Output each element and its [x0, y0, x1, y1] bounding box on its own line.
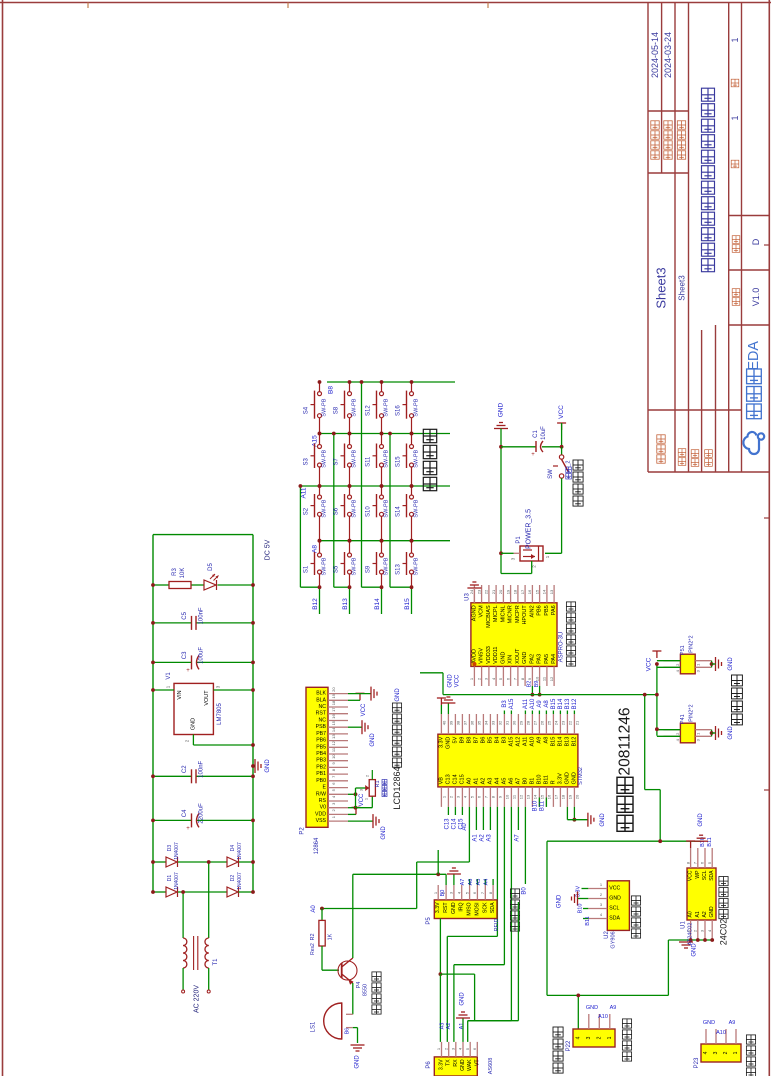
svg-text:B11: B11	[707, 837, 713, 846]
svg-text:PB5: PB5	[544, 605, 550, 615]
svg-text:24: 24	[554, 720, 559, 725]
svg-text:1N4007: 1N4007	[237, 842, 243, 860]
svg-text:AIN2: AIN2	[529, 605, 535, 617]
svg-text:VCC: VCC	[361, 703, 367, 716]
svg-text:16: 16	[527, 589, 532, 594]
svg-text:SW-PB: SW-PB	[384, 398, 390, 416]
svg-text:PA5: PA5	[544, 654, 550, 664]
svg-text:A5: A5	[476, 879, 482, 886]
svg-text:XOUT: XOUT	[515, 648, 521, 664]
svg-text:SW-PB: SW-PB	[414, 557, 420, 575]
svg-text:R2: R2	[310, 933, 316, 940]
svg-text:15: 15	[534, 589, 539, 594]
svg-text:A1: A1	[473, 778, 479, 785]
svg-text:22: 22	[568, 720, 573, 725]
svg-text:A3: A3	[486, 834, 492, 842]
svg-text:A0: A0	[466, 778, 472, 785]
svg-text:10uF: 10uF	[541, 426, 547, 440]
svg-text:RX: RX	[453, 1059, 459, 1067]
svg-text:1: 1	[733, 1051, 739, 1054]
svg-text:A9: A9	[610, 1005, 617, 1011]
svg-text:GND: GND	[370, 733, 376, 747]
svg-text:15: 15	[540, 794, 545, 799]
svg-text:P41: P41	[680, 714, 686, 724]
svg-text:A6: A6	[508, 778, 514, 785]
svg-text:14: 14	[542, 589, 547, 594]
svg-text:SW-PB: SW-PB	[322, 557, 328, 575]
svg-text:B14: B14	[557, 737, 563, 747]
svg-text:18: 18	[561, 794, 566, 799]
svg-text:S2: S2	[304, 507, 310, 515]
svg-text:VCC: VCC	[609, 886, 620, 892]
svg-text:AVDD: AVDD	[471, 649, 477, 664]
svg-text:23: 23	[561, 720, 566, 725]
svg-text:TX: TX	[446, 1059, 452, 1066]
svg-text:12: 12	[549, 676, 554, 681]
svg-text:SW-PB: SW-PB	[322, 398, 328, 416]
svg-text:WAK: WAK	[467, 1059, 473, 1071]
svg-text:+: +	[531, 452, 535, 458]
svg-text:17: 17	[554, 794, 559, 799]
svg-text:GND: GND	[703, 1020, 715, 1026]
svg-text:B8: B8	[466, 737, 472, 744]
svg-text:VIN5V: VIN5V	[479, 648, 485, 664]
svg-text:PB6: PB6	[316, 738, 326, 744]
svg-text:BLA: BLA	[316, 697, 326, 703]
svg-text:P22: P22	[566, 1040, 572, 1051]
svg-text:PIN2*2: PIN2*2	[688, 635, 694, 652]
svg-text:31: 31	[505, 720, 510, 725]
svg-text:A15: A15	[509, 698, 515, 709]
svg-text:A11: A11	[522, 737, 528, 746]
svg-text:AS608: AS608	[488, 1058, 494, 1075]
svg-text:B12: B12	[572, 698, 578, 709]
svg-text:100nF: 100nF	[199, 607, 205, 624]
svg-text:A0: A0	[688, 911, 694, 917]
svg-text:35: 35	[477, 720, 482, 725]
svg-text:GND: GND	[728, 657, 734, 671]
svg-text:A8: A8	[312, 545, 319, 553]
svg-text:B2: B2	[527, 681, 533, 688]
svg-text:B3: B3	[502, 700, 508, 708]
svg-text:4: 4	[703, 1051, 709, 1054]
svg-text:C15: C15	[459, 774, 465, 784]
svg-text:D5: D5	[208, 563, 214, 571]
svg-text:A8: A8	[544, 700, 550, 708]
svg-text:22: 22	[484, 589, 489, 594]
svg-text:32: 32	[498, 720, 503, 725]
svg-text:PA6: PA6	[551, 605, 557, 615]
svg-text:ASPRO-3U: ASPRO-3U	[559, 632, 565, 663]
svg-text:S5: S5	[334, 565, 340, 573]
svg-text:A10: A10	[529, 737, 535, 747]
svg-text:1: 1	[607, 1036, 613, 1039]
svg-text:40: 40	[442, 720, 447, 725]
svg-text:A1: A1	[472, 834, 478, 842]
svg-text:B3: B3	[501, 737, 507, 744]
svg-text:STM32: STM32	[578, 767, 584, 785]
svg-text:B12: B12	[571, 737, 577, 747]
svg-text:VSS: VSS	[316, 818, 327, 824]
svg-text:20: 20	[331, 687, 336, 692]
svg-text:SCL: SCL	[609, 906, 619, 912]
svg-text:SW-PB: SW-PB	[352, 398, 358, 416]
svg-text:A7: A7	[514, 834, 520, 842]
svg-text:B7: B7	[473, 737, 479, 744]
svg-text:A2: A2	[480, 778, 486, 785]
svg-text:POWER_3.5: POWER_3.5	[526, 509, 533, 549]
svg-text:SW-PB: SW-PB	[352, 557, 358, 575]
svg-text:1N4007: 1N4007	[174, 872, 180, 890]
svg-text:GND: GND	[709, 906, 715, 918]
svg-text:PA3: PA3	[537, 654, 543, 664]
svg-text:P4: P4	[356, 982, 362, 989]
svg-text:12: 12	[519, 794, 524, 799]
svg-text:LS1: LS1	[311, 1021, 317, 1032]
svg-text:MICPL: MICPL	[493, 605, 499, 622]
svg-text:3.3V: 3.3V	[575, 886, 581, 898]
svg-text:B11: B11	[539, 800, 545, 811]
svg-text:WP: WP	[695, 870, 701, 879]
svg-text:AT24C02: AT24C02	[688, 923, 694, 946]
svg-text:GND: GND	[556, 894, 562, 908]
svg-text:GND: GND	[571, 772, 577, 784]
svg-text:B9: B9	[459, 737, 465, 744]
svg-text:4: 4	[575, 1036, 581, 1039]
svg-text:13: 13	[526, 794, 531, 799]
svg-text:S8: S8	[334, 406, 340, 414]
svg-text:P5: P5	[426, 917, 432, 925]
svg-text:GND: GND	[564, 772, 570, 784]
svg-text:A4: A4	[494, 778, 500, 785]
svg-text:A10: A10	[530, 698, 536, 709]
svg-text:20811246: 20811246	[617, 707, 634, 775]
svg-text:GY906: GY906	[611, 931, 617, 948]
svg-text:26: 26	[540, 720, 545, 725]
svg-text:28: 28	[526, 720, 531, 725]
svg-text:B10: B10	[536, 775, 542, 785]
svg-text:SW-PB: SW-PB	[414, 499, 420, 517]
svg-text:A3: A3	[487, 778, 493, 785]
svg-text:AC 220V: AC 220V	[194, 985, 201, 1013]
svg-text:V1: V1	[166, 672, 172, 680]
svg-text:V1.0: V1.0	[751, 288, 761, 307]
svg-text:S3: S3	[304, 457, 310, 465]
svg-text:16: 16	[547, 794, 552, 799]
svg-text:GND: GND	[381, 826, 387, 840]
svg-text:A2: A2	[446, 1023, 452, 1030]
svg-text:B8: B8	[328, 386, 335, 394]
svg-text:VCC: VCC	[455, 674, 461, 687]
svg-text:SW: SW	[548, 469, 554, 479]
svg-text:SCK: SCK	[482, 902, 488, 913]
svg-text:30: 30	[512, 720, 517, 725]
svg-text:C2: C2	[182, 765, 188, 773]
svg-text:HPOUT: HPOUT	[522, 605, 528, 625]
svg-text:3: 3	[713, 1051, 719, 1054]
svg-text:VCC: VCC	[646, 657, 653, 671]
svg-text:B15: B15	[550, 737, 556, 747]
svg-text:IRQ: IRQ	[459, 902, 465, 911]
svg-text:DC 5V: DC 5V	[265, 539, 272, 560]
svg-text:SW-PB: SW-PB	[384, 557, 390, 575]
svg-text:B11: B11	[543, 775, 549, 784]
svg-text:2200uF: 2200uF	[199, 803, 205, 824]
svg-text:A6: A6	[468, 879, 474, 886]
svg-text:GND: GND	[447, 674, 453, 688]
svg-text:NC: NC	[319, 704, 327, 710]
svg-text:19: 19	[568, 794, 573, 799]
svg-text:24C02: 24C02	[719, 919, 729, 946]
svg-text:SCL: SCL	[702, 870, 708, 880]
svg-text:PB2: PB2	[316, 764, 326, 770]
svg-text:A2: A2	[479, 834, 485, 842]
svg-text:SW-PB: SW-PB	[352, 450, 358, 468]
svg-text:PA4: PA4	[551, 654, 557, 664]
svg-text:R3: R3	[172, 568, 178, 576]
svg-text:Sheet3: Sheet3	[654, 267, 669, 308]
svg-text:RS: RS	[319, 798, 327, 804]
svg-text:S6: S6	[334, 507, 340, 515]
svg-text:MICNR: MICNR	[508, 605, 514, 623]
svg-text:1N4007: 1N4007	[237, 872, 243, 890]
svg-text:2024-05-14: 2024-05-14	[650, 32, 660, 78]
svg-text:VCC: VCC	[688, 870, 694, 881]
svg-text:S12: S12	[366, 405, 372, 416]
svg-text:C3: C3	[182, 651, 188, 659]
svg-text:MOSI: MOSI	[474, 902, 480, 915]
svg-text:GND: GND	[498, 402, 505, 417]
svg-text:C1: C1	[533, 430, 539, 438]
svg-text:5V: 5V	[452, 736, 458, 743]
svg-text:B5: B5	[487, 737, 493, 744]
svg-text:B6: B6	[480, 737, 486, 744]
svg-text:B13: B13	[564, 737, 570, 747]
svg-text:U1: U1	[681, 921, 687, 929]
svg-text:B0: B0	[521, 887, 527, 895]
svg-text:38: 38	[456, 720, 461, 725]
svg-text:PB3: PB3	[316, 758, 326, 764]
svg-text:LM7805: LM7805	[217, 702, 223, 724]
svg-text:37: 37	[463, 720, 468, 725]
svg-text:12864: 12864	[314, 837, 320, 854]
svg-text:P51: P51	[680, 645, 686, 655]
svg-text:PB4: PB4	[316, 751, 326, 757]
svg-text:MISO: MISO	[467, 902, 473, 915]
svg-text:C14: C14	[451, 818, 457, 830]
svg-text:29: 29	[519, 720, 524, 725]
svg-text:S9: S9	[366, 565, 372, 573]
svg-text:GND: GND	[265, 759, 271, 773]
svg-text:U2: U2	[604, 931, 610, 939]
svg-text:SW-PB: SW-PB	[414, 450, 420, 468]
svg-text:B15: B15	[404, 598, 411, 610]
svg-text:S14: S14	[396, 506, 402, 517]
svg-text:GND: GND	[586, 1005, 598, 1011]
svg-text:3.3V: 3.3V	[439, 1059, 445, 1070]
svg-text:A7: A7	[515, 778, 521, 785]
svg-text:GND: GND	[698, 813, 704, 827]
svg-text:C13: C13	[444, 818, 450, 830]
svg-text:PSB: PSB	[316, 724, 327, 730]
svg-text:13: 13	[549, 589, 554, 594]
svg-text:GND: GND	[451, 902, 457, 914]
svg-text:21: 21	[491, 589, 496, 594]
svg-text:MICBIAS: MICBIAS	[486, 605, 492, 628]
svg-text:B10: B10	[578, 904, 584, 914]
svg-text:R/W: R/W	[316, 791, 326, 797]
svg-text:2: 2	[723, 1051, 729, 1054]
svg-text:2: 2	[596, 1036, 602, 1039]
svg-text:EDA: EDA	[746, 341, 762, 371]
svg-text:GND: GND	[355, 1055, 361, 1069]
svg-text:A10: A10	[716, 1030, 726, 1036]
svg-text:SW-PB: SW-PB	[384, 450, 390, 468]
svg-text:R: R	[550, 780, 556, 784]
svg-text:C5: C5	[182, 611, 188, 619]
svg-text:18: 18	[513, 589, 518, 594]
svg-text:VCC: VCC	[558, 405, 565, 419]
svg-text:2024-03-24: 2024-03-24	[663, 32, 673, 78]
svg-text:MICPR: MICPR	[515, 605, 521, 623]
svg-text:GND: GND	[500, 652, 506, 664]
svg-text:VB: VB	[438, 777, 444, 785]
svg-text:33: 33	[491, 720, 496, 725]
svg-text:B14: B14	[374, 598, 381, 610]
svg-text:1N4007: 1N4007	[174, 842, 180, 860]
svg-text:100nF: 100nF	[199, 760, 205, 777]
svg-text:PB0: PB0	[316, 778, 326, 784]
svg-text:GND: GND	[190, 718, 196, 730]
svg-text:XIN: XIN	[508, 655, 514, 664]
svg-text:S16: S16	[396, 405, 402, 416]
svg-text:P2: P2	[300, 827, 306, 835]
svg-text:25: 25	[547, 720, 552, 725]
svg-text:10: 10	[505, 794, 510, 799]
svg-text:1: 1	[730, 115, 740, 120]
svg-text:A5: A5	[501, 778, 507, 785]
svg-text:A3: A3	[439, 1023, 445, 1030]
svg-text:B0: B0	[440, 890, 446, 897]
svg-text:A15: A15	[508, 737, 514, 747]
svg-text:27: 27	[533, 720, 538, 725]
svg-text:A0: A0	[311, 905, 317, 913]
svg-text:GND: GND	[395, 688, 401, 702]
svg-text:3.3V: 3.3V	[435, 902, 441, 913]
svg-text:PB1: PB1	[316, 771, 326, 777]
svg-text:A8: A8	[543, 737, 549, 744]
svg-text:GND: GND	[522, 652, 528, 664]
svg-text:_2: _2	[566, 461, 572, 468]
svg-text:A1: A1	[459, 1023, 465, 1030]
svg-text:10: 10	[534, 676, 539, 681]
svg-text:S11: S11	[366, 456, 372, 467]
svg-text:VOUT: VOUT	[204, 690, 210, 706]
svg-text:GND: GND	[728, 726, 734, 740]
svg-text:34: 34	[484, 720, 489, 725]
svg-text:VDD11: VDD11	[493, 647, 499, 664]
svg-text:B15: B15	[551, 698, 557, 709]
svg-text:A0: A0	[462, 823, 468, 831]
svg-text:C13: C13	[445, 774, 451, 784]
svg-text:U3: U3	[465, 593, 471, 601]
svg-text:B0: B0	[522, 778, 528, 785]
svg-text:B13: B13	[342, 598, 349, 610]
svg-text:14: 14	[533, 794, 538, 799]
svg-text:19: 19	[505, 589, 510, 594]
svg-text:S4: S4	[304, 406, 310, 414]
svg-text:A4: A4	[484, 879, 490, 886]
svg-text:AGND: AGND	[471, 605, 477, 621]
svg-text:VCM: VCM	[479, 605, 485, 618]
svg-text:SW-PB: SW-PB	[414, 398, 420, 416]
svg-text:T1: T1	[213, 958, 219, 966]
svg-text:3.3V: 3.3V	[438, 736, 444, 748]
svg-text:S15: S15	[396, 456, 402, 467]
svg-text:PB5: PB5	[316, 744, 326, 750]
svg-text:21: 21	[575, 720, 580, 725]
svg-text:S7: S7	[334, 457, 340, 465]
svg-text:B4: B4	[494, 737, 500, 744]
svg-text:P23: P23	[694, 1057, 700, 1068]
svg-text:A7: A7	[460, 879, 466, 886]
svg-text:GND: GND	[600, 813, 606, 827]
svg-text:20: 20	[498, 589, 503, 594]
svg-text:D: D	[751, 238, 761, 245]
svg-text:SW-PB: SW-PB	[322, 450, 328, 468]
svg-text:B11: B11	[585, 916, 591, 925]
svg-text:39: 39	[449, 720, 454, 725]
svg-text:VIN: VIN	[177, 690, 183, 699]
svg-text:B12: B12	[312, 598, 319, 610]
svg-text:LCD12864: LCD12864	[392, 766, 402, 809]
svg-text:D3: D3	[167, 845, 173, 852]
svg-text:B1: B1	[529, 778, 535, 785]
svg-text:Res2: Res2	[310, 943, 316, 955]
svg-text:MICNL: MICNL	[500, 605, 506, 622]
svg-text:RST: RST	[443, 902, 449, 913]
svg-text:Sheet3: Sheet3	[678, 275, 687, 301]
svg-text:SDA: SDA	[609, 916, 620, 922]
svg-text:P1: P1	[516, 536, 522, 544]
svg-text:23: 23	[476, 589, 481, 594]
svg-text:100uF: 100uF	[199, 647, 205, 664]
svg-text:C14: C14	[452, 774, 458, 784]
svg-text:NC: NC	[319, 718, 327, 724]
svg-text:17: 17	[520, 589, 525, 594]
svg-text:V0: V0	[320, 805, 326, 811]
svg-text:S13: S13	[396, 564, 402, 575]
svg-text:GND: GND	[460, 1059, 466, 1071]
svg-text:B10: B10	[532, 800, 538, 811]
svg-text:A9: A9	[536, 737, 542, 744]
svg-text:A10: A10	[598, 1014, 608, 1020]
svg-text:VDD: VDD	[315, 811, 326, 817]
svg-text:SW-PB: SW-PB	[352, 499, 358, 517]
svg-text:PIN2*2: PIN2*2	[688, 704, 694, 721]
svg-text:10K: 10K	[180, 568, 186, 579]
svg-text:D4: D4	[230, 845, 236, 852]
svg-text:R1: R1	[375, 780, 381, 787]
svg-text:3: 3	[586, 1036, 592, 1039]
svg-text:VDD33: VDD33	[486, 646, 492, 664]
svg-text:+: +	[186, 668, 190, 674]
svg-text:B9: B9	[534, 681, 540, 688]
svg-text:36: 36	[470, 720, 475, 725]
svg-text:GND: GND	[445, 737, 451, 749]
svg-text:S1: S1	[304, 565, 310, 573]
svg-text:D2: D2	[230, 875, 236, 882]
